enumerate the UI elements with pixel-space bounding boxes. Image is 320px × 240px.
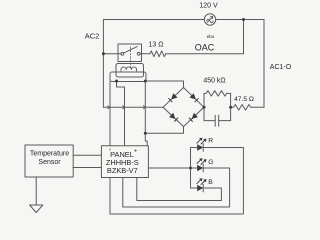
svg-text:47.5 Ω: 47.5 Ω <box>234 96 254 103</box>
svg-text:+: + <box>134 149 137 155</box>
svg-text:120 V: 120 V <box>199 3 218 10</box>
svg-text:450 kΩ: 450 kΩ <box>203 77 225 84</box>
svg-text:AC2: AC2 <box>85 32 100 41</box>
svg-text:B: B <box>208 179 213 186</box>
svg-text:Temperature: Temperature <box>30 151 69 158</box>
svg-text:OAC: OAC <box>195 42 215 52</box>
svg-text:13 Ω: 13 Ω <box>149 41 164 48</box>
svg-text:ebo: ebo <box>207 34 215 39</box>
svg-text:AC1-O: AC1-O <box>270 64 292 71</box>
svg-text:G: G <box>208 159 213 166</box>
svg-text:BZKB-V7: BZKB-V7 <box>107 166 138 175</box>
svg-text:Sensor: Sensor <box>38 159 61 166</box>
svg-text:°: ° <box>109 149 111 155</box>
svg-text:R: R <box>208 138 213 145</box>
